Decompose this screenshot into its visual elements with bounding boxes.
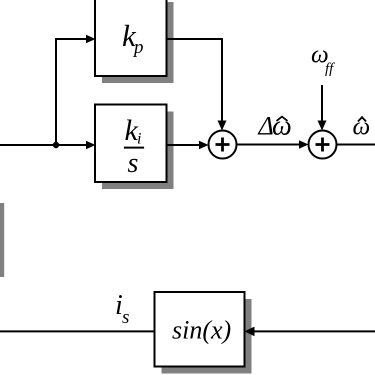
block U1 kp shadow <box>102 2 174 83</box>
wire summer1 to summer2 <box>237 144 301 146</box>
label kp value <box>122 18 144 58</box>
svg-text:p: p <box>132 37 144 58</box>
arrowhead into kp block <box>86 35 96 44</box>
wire from right into sin(x) <box>253 330 375 332</box>
svg-text:i: i <box>137 130 141 147</box>
fraction bar <box>124 147 144 149</box>
arrowhead into summer 1 <box>199 141 209 150</box>
summer S1 circle <box>209 131 237 159</box>
wire summer2 output right <box>337 144 375 146</box>
label is <box>115 290 129 328</box>
svg-text:ω: ω <box>272 111 292 142</box>
label ki numerator <box>125 114 142 147</box>
block U1 kp <box>95 0 167 76</box>
svg-text:sin(x): sin(x) <box>172 316 231 345</box>
wire kp output to summer 1 <box>167 39 223 122</box>
label delta-omega-hat <box>258 111 292 142</box>
arrowhead down into summer 1 <box>218 121 227 131</box>
summer S2 plus sign <box>316 138 330 152</box>
summer S2 circle <box>309 131 337 159</box>
block U2 ki/s shadow <box>102 112 174 190</box>
summer S1 plus sign <box>216 138 230 152</box>
block U3 sin(x) <box>155 292 245 367</box>
label omega-ff <box>311 42 335 77</box>
arrowhead into summer 2 <box>299 140 309 149</box>
svg-text:s: s <box>128 148 139 179</box>
wire branch up to kp <box>56 39 87 145</box>
arrowhead into ki block <box>86 141 96 150</box>
block U2 ki/s <box>95 105 167 183</box>
arrowhead left into sin(x) <box>245 327 255 337</box>
label omega-hat output <box>353 114 371 141</box>
svg-text:ff: ff <box>325 61 335 77</box>
wire sin(x) output left <box>0 330 155 332</box>
shadow fragment of off-screen block at left <box>0 203 4 277</box>
node junction dot <box>53 142 59 148</box>
svg-text:s: s <box>122 307 129 328</box>
wire input horizontal <box>0 144 87 146</box>
wire ki output to summer 1 <box>167 144 201 146</box>
wire omega-ff down to summer 2 <box>321 85 323 122</box>
arrowhead down into summer 2 <box>318 121 327 131</box>
block U3 sin(x) shadow <box>162 299 252 374</box>
